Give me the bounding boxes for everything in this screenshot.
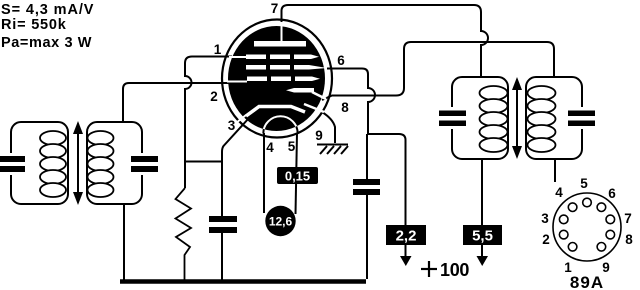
svg-text:6: 6 xyxy=(337,53,345,68)
wire pin3 cathode branch xyxy=(222,118,249,216)
parameter text block xyxy=(1,2,94,51)
wire pin9 to ground xyxy=(322,112,335,143)
svg-text:3: 3 xyxy=(541,211,549,226)
wire pin7 to left tank of right transformer xyxy=(282,5,489,77)
svg-text:89A: 89A xyxy=(570,273,604,290)
grid row 1 xyxy=(246,55,319,60)
value circle 12,6 xyxy=(265,206,295,236)
grid 3 lead to pin 2 xyxy=(227,81,247,83)
wire heater pin5 xyxy=(296,133,298,214)
svg-text:1: 1 xyxy=(214,42,222,57)
grid row 3 xyxy=(247,77,320,82)
value box 5,5 xyxy=(463,225,502,245)
svg-text:4: 4 xyxy=(266,140,274,155)
svg-text:7: 7 xyxy=(271,1,279,16)
right IF transformer tank 3 loop xyxy=(452,77,508,159)
gap for capacitor xyxy=(577,107,586,129)
svg-text:8: 8 xyxy=(341,100,349,115)
svg-text:3: 3 xyxy=(228,118,236,133)
svg-text:2: 2 xyxy=(542,232,550,247)
socket outline 89A xyxy=(553,193,621,261)
arrow below 2,2 xyxy=(400,256,412,266)
coupling arrow left transformer xyxy=(73,121,83,205)
svg-text:7: 7 xyxy=(624,211,632,226)
left IF transformer tank 2 loop xyxy=(87,122,142,204)
gap for capacitor xyxy=(7,153,16,175)
value box 2,2 xyxy=(386,225,426,245)
svg-text:2: 2 xyxy=(210,89,218,104)
wire capacitor to ground bus xyxy=(366,195,368,279)
wire heater pin4 xyxy=(263,133,265,213)
tube pin labels xyxy=(210,1,349,155)
gap for capacitor xyxy=(137,153,146,175)
svg-text:0,15: 0,15 xyxy=(285,169,310,184)
coupling arrow right transformer xyxy=(512,77,522,159)
svg-text:5: 5 xyxy=(288,139,296,154)
svg-text:4: 4 xyxy=(555,185,563,200)
wire left transformer secondary bottom to bus xyxy=(123,204,125,280)
wire 5,5 feed from left tank bottom xyxy=(481,159,483,257)
anode lead white (pin 7) xyxy=(281,25,283,42)
wire node junction horizontal xyxy=(185,161,222,163)
svg-text:8: 8 xyxy=(625,232,633,247)
socket pin holes xyxy=(559,198,614,251)
cathode bypass capacitor C (x=222) xyxy=(209,216,237,233)
wire pin8 to right tank of right transformer xyxy=(322,42,554,100)
resistor R (grid leak) xyxy=(176,188,192,280)
wire right tank bottom stub xyxy=(554,159,556,182)
ground symbol (pin 9) xyxy=(317,145,348,155)
screen bypass capacitor C (x=366) xyxy=(353,179,380,195)
+100 supply label xyxy=(421,261,437,277)
svg-text:Ri= 550k: Ri= 550k xyxy=(1,17,67,33)
tube outer circle xyxy=(222,20,332,138)
tank4 capacitor plates xyxy=(568,111,595,127)
beam plate lead to pin 8 xyxy=(312,92,326,99)
wire cathode capacitor to bus xyxy=(221,233,223,280)
pin3 white lead xyxy=(236,115,246,123)
svg-text:9: 9 xyxy=(315,128,323,143)
svg-text:Pa=max 3 W: Pa=max 3 W xyxy=(1,35,92,51)
wire pin6 vertical branch xyxy=(327,69,375,135)
tank3 coil xyxy=(480,86,508,152)
svg-text:S= 4,3 mA/V: S= 4,3 mA/V xyxy=(1,2,94,18)
svg-text:5: 5 xyxy=(580,176,588,191)
wire resistor top lead xyxy=(184,162,186,189)
anode plate bar xyxy=(254,41,306,47)
svg-text:100: 100 xyxy=(440,260,469,280)
wire pin1 to grid resistor xyxy=(185,57,232,162)
tank1 capacitor plates xyxy=(0,156,25,172)
cathode lead to pin 9 xyxy=(304,104,324,112)
socket pin number labels xyxy=(541,176,633,275)
right IF transformer tank 4 loop xyxy=(526,77,582,159)
gap for capacitor xyxy=(448,107,457,129)
cathode chevron xyxy=(246,107,305,117)
tank3 capacitor plates xyxy=(439,111,466,127)
left IF transformer tank 1 loop xyxy=(11,122,68,204)
wire pin6 node to capacitor xyxy=(366,134,368,179)
tank2 coil xyxy=(88,131,114,197)
svg-text:2,2: 2,2 xyxy=(396,228,417,245)
tank1 coil xyxy=(40,131,66,197)
wire branch to 2,2 resistor xyxy=(368,134,406,230)
wire pin2 to left transformer secondary top xyxy=(123,83,230,122)
grid 1 lead to pin 1 xyxy=(229,56,246,58)
grid row 2 xyxy=(246,65,327,70)
value box 0,15 xyxy=(277,167,318,184)
svg-text:12,6: 12,6 xyxy=(269,215,293,229)
tank4 coil xyxy=(528,86,556,152)
heater arc black part xyxy=(263,116,297,133)
svg-text:6: 6 xyxy=(608,186,616,201)
beam plate dash row 4 xyxy=(286,88,314,93)
ground bus bar xyxy=(120,279,366,284)
tube envelope black disc xyxy=(228,26,325,131)
tank2 capacitor plates xyxy=(131,156,158,172)
svg-text:5,5: 5,5 xyxy=(472,228,493,245)
arrow below 5,5 xyxy=(477,256,489,266)
